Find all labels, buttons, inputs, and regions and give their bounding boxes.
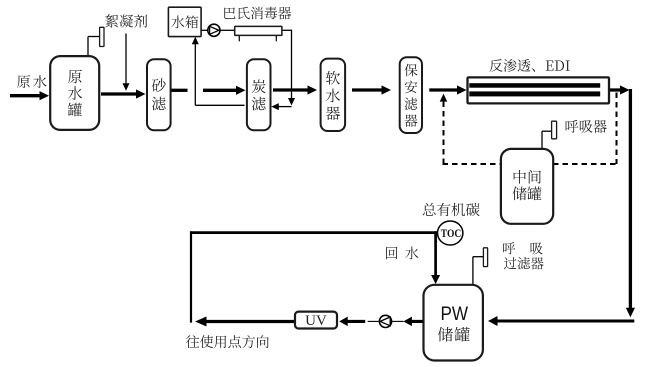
wire: PW outlet stub to pump P2 [392,320,403,322]
UV unit [295,312,337,329]
wire: pasteurizer return drop line [291,30,293,99]
arrow: return water down into PW tank [431,231,440,284]
RO membrane bar 2 [469,91,600,96]
dashed recirculation line right horizontal [553,163,618,165]
label 反渗透、EDI (RO/EDI) [490,59,570,72]
wire: pasteurizer outlet horizontal [282,29,292,31]
TOC analyzer instrument circle [438,221,463,245]
arrow: UV to points of use [195,317,295,327]
wire: tap line from carbon filter inlet to water tank (horizontal) [195,104,244,106]
wire: return water horizontal line [191,231,437,234]
RO membrane bar 1 [469,83,600,88]
svg-text:TOC: TOC [441,228,462,240]
dashed recirculation line left vertical [443,102,445,166]
text 原水罐 in raw water tank [68,70,82,117]
text 中间 in intermediate tank [514,170,541,184]
dashed recirculation line right vertical [616,93,618,165]
label 水箱 (water tank) [171,15,198,28]
label 絮凝剂 (flocculant) [105,14,147,28]
arrow: RO outlet to right [609,85,630,94]
dashed recirculation line left horizontal [443,163,502,165]
text 储罐 in intermediate tank [513,187,542,201]
label 呼 吸 (breathing) [503,242,543,254]
svg-text:PW: PW [441,304,469,325]
label 呼吸器 (breather) [566,120,607,133]
intermediate storage tank 中间储罐 [501,149,553,224]
svg-text:UV: UV [305,313,327,329]
arrow: pump P2 to UV [339,317,365,327]
wire: tap line riser up to water tank [194,44,196,106]
label 回 水 (return water) [386,247,418,260]
arrow: product line into PW tank right side [488,316,634,326]
arrowhead left into carbon filter [271,103,279,110]
arrow: carbon filter to softener [273,85,317,94]
arrow: security filter to RO [429,85,466,94]
wire: pump P2 outlet stub [368,320,379,322]
arrowhead down on pasteurizer return [288,98,295,106]
vent pipe on raw water tank (vertical) [87,37,89,57]
text 砂滤 in sand filter [152,78,166,110]
arrow: to carbon filter [203,86,246,95]
vent breather element on raw water tank [100,27,104,46]
carbon filter 炭滤 [247,59,271,130]
arrowhead down flocculant dosing [123,83,130,91]
label 总有机碳 (TOC) [423,203,480,216]
pasteurizer 巴氏消毒器 [235,26,282,35]
vent pipe on raw water tank (horizontal) [88,36,100,38]
label 原 水 (raw water) [17,75,47,88]
water tank 水箱 [168,7,201,36]
softener 软水器 [321,59,346,131]
text 保安滤器 in security filter [404,64,417,127]
breather pipe on intermediate tank (horizontal) [542,130,552,132]
pasteurizer right leg [275,35,277,41]
wire: water tank outlet to pump P1 [201,29,208,31]
breather pipe on PW tank (horizontal) [473,256,484,258]
pump P1 (pasteurizer loop pump) [208,24,220,36]
wire: pump P1 to pasteurizer [220,29,235,31]
arrow: product line down right side [626,89,635,317]
label 过滤器 (filter) [504,257,544,269]
text 炭滤 in carbon filter [252,79,266,110]
sand filter 砂滤 [147,59,171,130]
arrow: PW tank outlet to pump P2 [403,317,423,327]
label 巴氏消毒器 (pasteurizer) [224,7,291,20]
text 软水器 in softener [326,71,340,120]
wire: distribution loop riser (left) [190,231,192,322]
raw water tank 原水罐 [50,56,99,130]
breather element on intermediate tank [552,121,557,139]
wire: sand filter outlet stub (thick) [171,89,188,92]
breather pipe on PW tank (vertical) [472,257,474,286]
security filter 保安滤器 [400,57,422,133]
label 往使用点方向 (to points of use) [186,335,269,348]
arrowhead up on dashed recirculation [440,94,448,102]
arrow: raw water inlet [10,91,49,100]
arrowhead up into water tank [192,37,199,45]
wire: return into carbon filter right side [277,106,292,108]
RO/EDI unit outer shell [468,77,610,103]
text 储罐 in PW tank [438,327,470,342]
pump P2 (distribution pump) [379,315,391,327]
pasteurizer left leg [238,35,240,41]
breather pipe on intermediate tank (vertical) [541,131,543,149]
PW storage tank PW储罐 [424,285,483,361]
arrow: softener to security filter [352,85,391,94]
breather filter element on PW tank [483,248,487,267]
flocculant dosing line [125,34,127,84]
arrow: raw water tank to sand filter [101,89,146,98]
